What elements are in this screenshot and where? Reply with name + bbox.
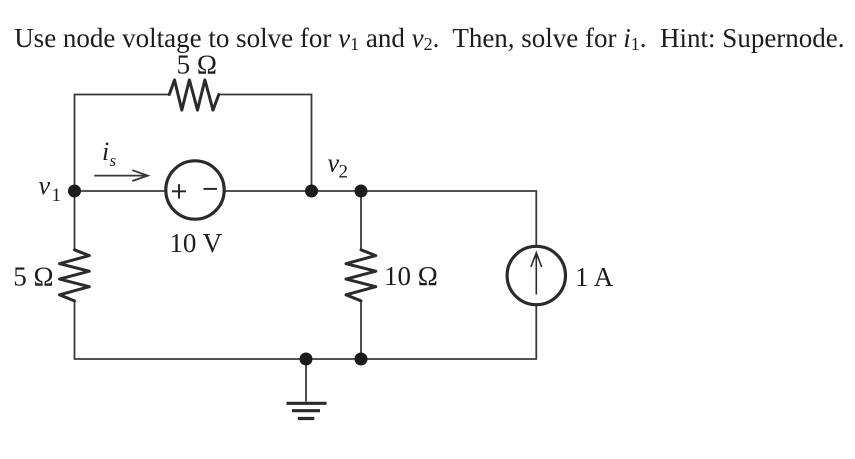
svg-text:1 A: 1 A — [575, 262, 614, 292]
svg-text:1: 1 — [52, 185, 62, 206]
svg-text:s: s — [110, 151, 117, 170]
svg-text:5 Ω: 5 Ω — [13, 261, 53, 291]
svg-text:5 Ω: 5 Ω — [177, 50, 217, 80]
svg-text:10 Ω: 10 Ω — [384, 261, 438, 291]
svg-text:10 V: 10 V — [169, 228, 222, 258]
svg-text:v: v — [39, 171, 51, 200]
svg-text:Use node voltage to solve for: Use node voltage to solve for v1 and v2.… — [14, 23, 844, 54]
svg-text:2: 2 — [339, 161, 349, 182]
svg-text:i: i — [102, 137, 109, 166]
